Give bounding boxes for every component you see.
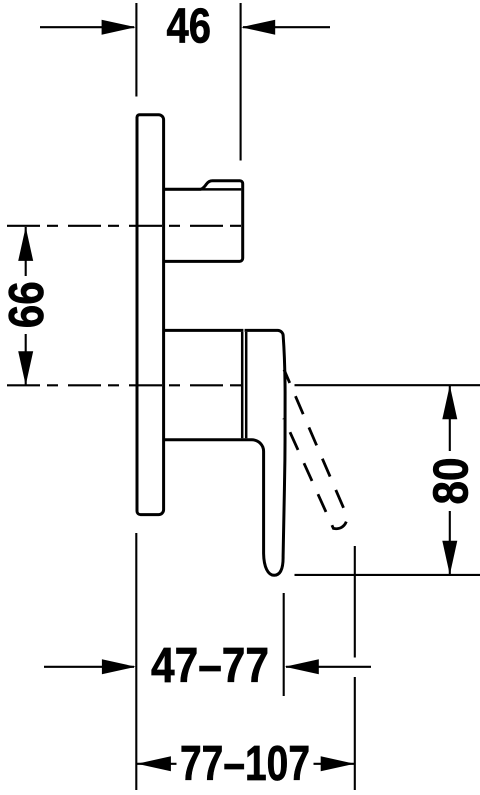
svg-text:46: 46 [167, 0, 212, 54]
dim 46 right tail line [243, 26, 330, 28]
dim 77-107 left stub line [137, 763, 177, 765]
svg-text:66: 66 [0, 281, 54, 328]
dim 77-107 arrow right-pointing [321, 756, 355, 771]
dim 66 line upper segment [25, 227, 27, 276]
extension line upper for dim 80 [295, 384, 480, 386]
svg-text:47–77: 47–77 [151, 639, 269, 693]
extension line right of dim 46 [240, 3, 242, 161]
dim 80 arrow up-pointing [442, 385, 457, 419]
escutcheon top line [164, 329, 243, 332]
centerline upper (knob axis) [7, 225, 243, 227]
dim 77-107 arrow left-pointing [137, 756, 171, 771]
dim 46 left tail line [40, 26, 134, 28]
dim 47-77 left tail line [44, 666, 134, 668]
dim 66 arrow down-pointing [18, 351, 33, 385]
dim 80 line lower segment [449, 511, 451, 574]
dim 66 line lower segment [25, 334, 27, 385]
dim 77-107 right stub line [314, 763, 355, 765]
lever handle outline with escutcheon bottom [164, 330, 285, 575]
escutcheon right edge outer line [245, 332, 248, 438]
extension line left of dim 46 [135, 3, 137, 97]
svg-text:80: 80 [424, 458, 478, 505]
extension line bottom middle (from lever tip) [283, 593, 285, 696]
centerline lower (lever axis) [7, 384, 246, 386]
extension line lower for dim 80 [295, 574, 480, 576]
dim 47-77 right tail line [286, 666, 371, 668]
dim 66 arrow up-pointing [18, 227, 33, 261]
svg-text:77–107: 77–107 [180, 737, 310, 791]
dim 46 arrow left-pointing [241, 20, 275, 35]
extension line bottom right upper segment (from dashed lever tip) [354, 546, 356, 658]
knob seam line [164, 188, 241, 191]
extension line bottom right lower segment [354, 677, 356, 790]
dim 80 arrow down-pointing [442, 541, 457, 575]
dim 46 arrow right-pointing [102, 20, 136, 35]
plate outline [137, 115, 164, 515]
lever alternate position dashed outline [284, 370, 347, 529]
knob outline [164, 181, 243, 262]
dim 47-77 arrow left-pointing [285, 659, 319, 674]
dim 80 line upper segment [449, 386, 451, 451]
escutcheon right edge inner line [241, 332, 244, 438]
extension line bottom left (from plate) [135, 533, 137, 790]
dim 47-77 arrow right-pointing [102, 659, 136, 674]
